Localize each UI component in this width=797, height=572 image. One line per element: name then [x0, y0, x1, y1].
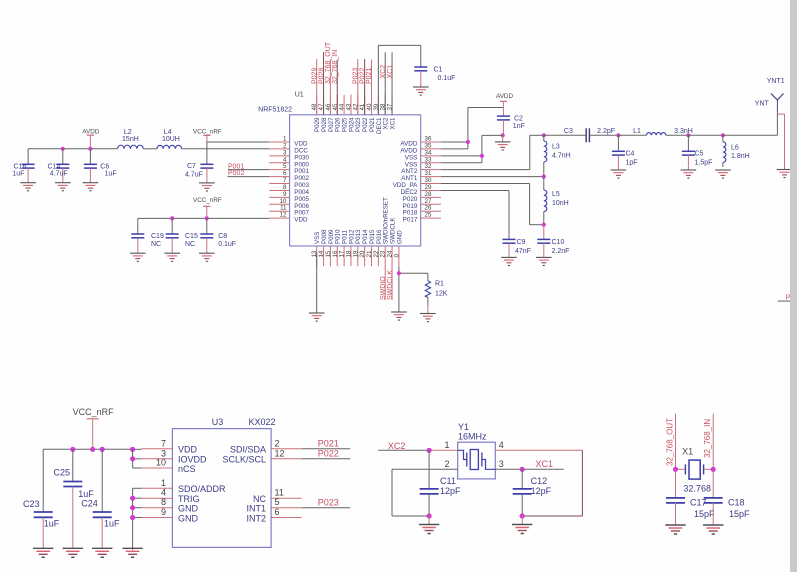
svg-text:P022: P022 — [318, 449, 339, 459]
wire net P021 (U3 pin2) — [302, 439, 351, 449]
node rail-C24 — [100, 447, 105, 452]
wire net P021 (U1 top pin 40) — [366, 60, 373, 115]
svg-text:Y1: Y1 — [458, 422, 469, 432]
ground for C9 — [501, 256, 517, 258]
U1 pin 26 P018 (right) — [403, 205, 441, 217]
U1 pin 10 P006 (left) — [269, 198, 309, 210]
U1 pin 20 P014 (bottom) — [359, 229, 369, 266]
window edge shading right — [790, 0, 797, 572]
wire net XC2 (U1 pin 38) — [380, 52, 387, 115]
node AVDD pins junction — [466, 140, 470, 144]
U1 pin 39 DEC1 (top) — [373, 95, 383, 134]
ground for C2 — [495, 135, 511, 150]
U1 pin 9 P005 (left) — [269, 191, 309, 203]
node GND9 tie — [130, 515, 135, 520]
svg-text:XC1: XC1 — [387, 65, 394, 79]
svg-text:5: 5 — [275, 497, 280, 507]
svg-text:L4: L4 — [164, 129, 172, 136]
wire net SWDCLK (pin 24) — [387, 266, 394, 300]
svg-text:C3: C3 — [564, 128, 573, 135]
ground for C19 — [130, 252, 146, 254]
svg-text:R1: R1 — [435, 281, 444, 288]
ground for C8 — [199, 252, 215, 254]
svg-text:C9: C9 — [517, 239, 526, 246]
wire U3 VDD rail — [43, 448, 141, 450]
U1 pin 5 P001 (left) — [269, 163, 309, 175]
wire SDO/TRIG/GND tie to ground — [133, 488, 142, 550]
U1 pin 8 P004 (left) — [269, 184, 309, 196]
svg-text:VCC_nRF: VCC_nRF — [193, 197, 222, 204]
svg-text:C18: C18 — [728, 498, 745, 508]
node C11-ground junction — [427, 513, 432, 518]
antenna YNT1 — [755, 78, 785, 111]
svg-text:AVDD: AVDD — [496, 93, 513, 100]
power AVDD (top) — [496, 93, 513, 116]
node pin0-R1 junction — [397, 271, 401, 275]
svg-text:P002: P002 — [228, 170, 244, 177]
svg-text:U1: U1 — [295, 92, 304, 99]
U3 pin 5 INT1 (right) — [246, 497, 301, 513]
node C12-ground junction — [520, 513, 525, 518]
ground for C14 — [55, 182, 71, 184]
node DCC-rail junction C14 — [61, 147, 65, 151]
U3 pin 3 IOVDD (left) — [142, 448, 208, 464]
U1 pin 31 ANT1 (right) — [401, 170, 441, 182]
U1 pin 3 P030 (left) — [269, 149, 309, 161]
svg-text:12: 12 — [280, 212, 287, 219]
svg-text:32_768_IN: 32_768_IN — [703, 419, 712, 458]
capacitor C12 — [513, 469, 552, 516]
svg-text:2: 2 — [275, 438, 280, 448]
svg-text:4.7uF: 4.7uF — [185, 171, 203, 178]
ground for L6 — [715, 169, 731, 171]
svg-text:L1: L1 — [633, 128, 641, 135]
wire VSS pin13 to ground — [316, 252, 318, 313]
U1 pin 48 P029 (top) — [311, 95, 321, 132]
svg-text:C23: C23 — [23, 499, 40, 509]
U1 pin 40 P021 (top) — [366, 95, 376, 132]
U1 pin 2 DCC (left) — [269, 142, 308, 154]
capacitor C19 — [131, 218, 164, 253]
U3 pin 8 GND (left) — [142, 497, 199, 513]
node VSS pins junction — [480, 154, 484, 158]
capacitor C15 — [166, 218, 198, 253]
U1 pin 0 GND (bottom) — [393, 230, 403, 266]
capacitor C1 — [414, 66, 455, 87]
wire net XC2 (to Y1 pin1) — [378, 441, 458, 451]
U1 pin 44 P025 (top) — [339, 95, 349, 132]
inductor L1 — [618, 128, 692, 135]
inductor L4 — [157, 129, 182, 149]
ground for C7 — [199, 182, 215, 184]
U1 pin 43 P024 (top) — [345, 95, 355, 132]
node rail-C15 — [170, 216, 174, 220]
svg-text:8: 8 — [161, 497, 166, 507]
svg-text:32_768_IN: 32_768_IN — [332, 50, 339, 84]
wire rail to antenna — [723, 134, 778, 136]
svg-text:3.3nH: 3.3nH — [674, 128, 693, 135]
U3 pin 11 NC (right) — [253, 488, 302, 504]
svg-text:2: 2 — [444, 459, 449, 469]
U3 pin 7 VDD (left) — [142, 438, 198, 454]
svg-text:2.2pF: 2.2pF — [597, 128, 615, 135]
wire net 32_768_OUT — [666, 414, 676, 498]
U3 pin 9 GND (left) — [142, 507, 199, 523]
svg-text:47nF: 47nF — [515, 248, 531, 255]
svg-text:GND: GND — [396, 230, 403, 244]
svg-text:C2: C2 — [514, 116, 523, 123]
U1 pin 15 P009 (bottom) — [325, 229, 335, 266]
svg-text:11: 11 — [275, 488, 284, 498]
U1 pin 46 P027 (top) — [325, 95, 335, 132]
U3 pin 2 SDI/SDA (right) — [230, 438, 302, 454]
capacitor C7 — [185, 142, 213, 183]
node L5-C10 junction — [542, 223, 546, 227]
U1 pin 7 P003 (left) — [269, 177, 309, 189]
svg-text:nCS: nCS — [178, 464, 196, 474]
ground for C23 — [33, 547, 53, 549]
capacitor C16 — [12, 149, 34, 183]
svg-text:0.1uF: 0.1uF — [438, 75, 456, 82]
svg-text:C5: C5 — [695, 151, 704, 158]
wire ANT1 pin31 — [441, 176, 544, 178]
U1 pin 6 P002 (left) — [269, 170, 309, 182]
inductor L3 — [544, 135, 571, 176]
U1 pin 42 P023 (top) — [352, 95, 362, 132]
U1 pin 37 XC1 (top) — [387, 95, 397, 130]
wire net P029 (U1 top pin 48) — [311, 59, 318, 115]
svg-text:12pF: 12pF — [440, 486, 461, 496]
svg-text:X1: X1 — [682, 446, 693, 456]
node L3-L5 junction — [542, 175, 546, 179]
U1 pin 33 VSS (right) — [405, 156, 441, 168]
U1 pin 30 VDD_PA (right) — [393, 177, 441, 189]
svg-text:KX022: KX022 — [248, 417, 275, 427]
ground for C11 — [419, 516, 439, 534]
svg-text:P017: P017 — [403, 217, 418, 224]
wire net 32_768_IN — [703, 414, 713, 498]
U1 pin 32 ANT2 (right) — [401, 163, 441, 175]
wire ANT2 to matching network — [441, 135, 544, 169]
ground for C24 — [92, 547, 112, 549]
svg-text:1.8nH: 1.8nH — [731, 153, 750, 160]
svg-text:1uF: 1uF — [78, 489, 94, 499]
svg-text:6: 6 — [275, 507, 280, 517]
wire net P023 (U3 pin5) — [302, 498, 351, 508]
svg-text:1pF: 1pF — [626, 160, 638, 167]
ground for C4 — [611, 169, 627, 171]
node XC1-C12 junction — [520, 467, 525, 472]
wire net P022 (U1 top pin 41) — [359, 59, 366, 115]
ground for R1 — [420, 313, 436, 315]
capacitor C3 (series) — [544, 128, 619, 142]
svg-text:INT1: INT1 — [246, 504, 266, 514]
svg-text:C11: C11 — [440, 476, 456, 486]
svg-text:NRF51822: NRF51822 — [258, 107, 292, 114]
resistor R1 — [425, 273, 447, 313]
wire net 32_768_IN (U1 top pin 45) — [332, 50, 339, 115]
svg-text:15nH: 15nH — [122, 136, 139, 143]
capacitor C4 — [612, 135, 638, 170]
svg-text:9: 9 — [161, 507, 166, 517]
wire DCC rail to L2/L4 — [28, 148, 269, 150]
svg-text:C8: C8 — [218, 233, 227, 240]
capacitor C10 — [537, 225, 569, 258]
wire VDD pin1 to VCC_nRF — [207, 141, 269, 143]
svg-text:12pF: 12pF — [531, 486, 552, 496]
capacitor C2 — [497, 116, 525, 136]
wire net XC1 (Y1 pin3) — [495, 459, 563, 469]
svg-text:XC2: XC2 — [388, 441, 406, 451]
U1 pin 4 P000 (left) — [269, 156, 309, 168]
wire net 32_768_OUT (U1 top pin 46) — [325, 41, 332, 115]
wire net P001 pin5 — [228, 163, 269, 170]
wire VCC_nRF rail to VDD pin12 — [138, 217, 269, 219]
wire IOVDD/nCS tie — [133, 449, 142, 468]
U1 pin 16 P010 (bottom) — [332, 229, 342, 266]
svg-text:C4: C4 — [626, 151, 635, 158]
node rail-IOVDD branch — [130, 447, 135, 452]
svg-text:1nF: 1nF — [513, 123, 525, 130]
node L6 tap — [721, 133, 725, 137]
svg-text:4: 4 — [499, 440, 504, 450]
U1 pin 41 P022 (top) — [359, 95, 369, 132]
wire VDD_PA pin30 to C10 — [441, 184, 544, 225]
svg-text:GND: GND — [178, 504, 199, 514]
svg-text:XC1: XC1 — [535, 459, 553, 469]
U1 pin 18 P012 (bottom) — [345, 229, 355, 266]
svg-text:U3: U3 — [212, 417, 224, 427]
power VCC_nRF (U3) — [73, 407, 115, 450]
svg-text:32_768_OUT: 32_768_OUT — [666, 418, 675, 466]
svg-text:XC1: XC1 — [389, 117, 396, 130]
wire net P022 (U3 pin12) — [302, 449, 351, 459]
svg-text:1uF: 1uF — [105, 170, 117, 177]
ground for C12 — [512, 516, 532, 534]
svg-text:1: 1 — [444, 440, 449, 450]
capacitor C17 — [666, 498, 715, 526]
U3 pin 1 SDO/ADDR (left) — [142, 478, 227, 494]
svg-text:C1: C1 — [434, 66, 443, 73]
ground for C6 — [83, 182, 99, 184]
svg-text:C6: C6 — [100, 163, 109, 170]
inductor L5 — [544, 177, 569, 225]
svg-text:0.1uF: 0.1uF — [218, 241, 236, 248]
ground for C15 — [164, 252, 180, 254]
svg-text:VCC_nRF: VCC_nRF — [73, 407, 115, 417]
svg-text:1uF: 1uF — [12, 170, 24, 177]
wire net P0 (right edge) — [778, 295, 795, 302]
capacitor C25 — [53, 449, 94, 548]
svg-text:GND: GND — [178, 513, 199, 523]
svg-text:C12: C12 — [531, 476, 548, 486]
svg-text:L3: L3 — [552, 144, 560, 151]
wire Y1 pin2 loop — [392, 469, 458, 516]
U1 pin 25 P017 (right) — [403, 212, 441, 224]
U1 pin 27 P019 (right) — [403, 198, 441, 210]
IC U3 KX022 body — [172, 429, 271, 548]
U1 pin 34 VSS (right) — [405, 149, 441, 161]
svg-text:VCC_nRF: VCC_nRF — [193, 128, 222, 135]
svg-text:C16: C16 — [14, 163, 27, 170]
svg-text:NC: NC — [253, 494, 266, 504]
svg-text:SWDCLK: SWDCLK — [387, 270, 394, 300]
svg-text:C25: C25 — [53, 468, 70, 478]
U1 pin 14 P008 (bottom) — [318, 229, 328, 266]
capacitor C18 — [704, 498, 750, 526]
svg-text:4.7uF: 4.7uF — [50, 170, 68, 177]
svg-text:SDO/ADDR: SDO/ADDR — [178, 484, 226, 494]
wire net XC1 (U1 pin 37) — [387, 52, 394, 115]
svg-text:0: 0 — [393, 254, 400, 258]
inductor L2 — [118, 129, 144, 149]
U1 pin 36 AVDD (right) — [400, 136, 441, 148]
svg-text:4: 4 — [161, 488, 166, 498]
svg-text:C15: C15 — [185, 233, 198, 240]
U1 pin 24 SWDCLK (bottom) — [387, 217, 397, 267]
crystal Y1 16MHz body — [444, 422, 503, 479]
IC U1 NRF51822 body — [290, 115, 421, 246]
ground for C17 — [665, 524, 685, 526]
svg-text:C14: C14 — [48, 163, 61, 170]
node rail-C25 — [70, 447, 75, 452]
svg-text:C24: C24 — [81, 499, 98, 509]
power VCC_nRF (mid) — [193, 197, 222, 218]
svg-text:P023: P023 — [318, 498, 339, 508]
capacitor C8 — [200, 218, 236, 253]
svg-text:4.7nH: 4.7nH — [552, 153, 571, 160]
svg-text:25: 25 — [425, 212, 432, 219]
power AVDD (left) — [82, 128, 99, 149]
svg-text:YNT1: YNT1 — [767, 78, 785, 85]
node C2-ground junction — [501, 133, 505, 137]
node XC2-C11 junction — [427, 448, 432, 453]
U3 pin 4 TRIG (left) — [142, 488, 200, 504]
U1 pin 23 SWDIO/nRESET (bottom) — [380, 197, 390, 266]
svg-text:L5: L5 — [552, 191, 560, 198]
svg-text:TRIG: TRIG — [178, 494, 200, 504]
svg-text:C10: C10 — [552, 239, 565, 246]
svg-text:YNT: YNT — [755, 101, 770, 108]
svg-text:16MHz: 16MHz — [458, 432, 487, 442]
U1 pin 29 DEC2 (right) — [401, 184, 441, 196]
svg-text:1uF: 1uF — [104, 519, 120, 529]
svg-text:C19: C19 — [151, 233, 164, 240]
U1 pin 47 P028 (top) — [318, 95, 328, 132]
wire VSS pins 33-34 to ground — [441, 135, 503, 162]
node DCC-rail junction AVDD — [88, 147, 92, 151]
node C5 tap — [686, 133, 690, 137]
ground for C5 — [681, 169, 697, 171]
capacitor C23 — [23, 449, 60, 548]
node TRIG tie — [130, 496, 135, 501]
svg-text:L2: L2 — [124, 129, 132, 136]
ground for C1 — [413, 86, 429, 88]
svg-text:P021: P021 — [366, 68, 373, 84]
svg-text:1.5pF: 1.5pF — [695, 160, 713, 167]
svg-text:L6: L6 — [731, 144, 739, 151]
capacitor C14 — [48, 149, 70, 183]
ground for U3 tie — [122, 547, 142, 549]
svg-text:15pF: 15pF — [729, 509, 750, 519]
U1 pin 13 VSS (bottom) — [311, 232, 321, 267]
svg-text:12K: 12K — [435, 291, 448, 298]
node rail-C8 — [205, 216, 209, 220]
wire Y1 pin4 loop — [495, 450, 582, 516]
capacitor C11 — [420, 450, 461, 516]
svg-text:1uF: 1uF — [44, 519, 60, 529]
U1 pin 12 VDD (left) — [269, 212, 308, 224]
wire AVDD pins 35-36 — [441, 108, 504, 149]
ground for C18 — [703, 524, 723, 526]
U1 pin 35 AVDD (right) — [400, 142, 441, 154]
U1 pin 28 P020 (right) — [403, 191, 441, 203]
node rail-VCC stem — [90, 447, 95, 452]
svg-text:NC: NC — [185, 241, 195, 248]
node GND8 tie — [130, 505, 135, 510]
svg-text:NC: NC — [151, 241, 161, 248]
node IOVDD tie — [130, 456, 135, 461]
U1 pin 1 VDD (left) — [269, 136, 308, 148]
ground for C25 — [63, 547, 83, 549]
wire antenna to rail — [777, 111, 784, 169]
ground for antenna — [777, 169, 793, 171]
U1 pin 17 P011 (bottom) — [339, 229, 349, 266]
node L3 top junction — [542, 133, 546, 137]
svg-text:10nH: 10nH — [552, 200, 569, 207]
ground for C10 — [536, 256, 552, 258]
U1 pin 11 P007 (left) — [269, 205, 309, 217]
wire net P002 pin6 — [228, 170, 270, 177]
wire antenna feed rail — [688, 134, 723, 136]
node X1 left junction — [673, 467, 678, 472]
capacitor C9 — [503, 239, 531, 257]
ground for C16 — [20, 182, 36, 184]
U1 pin 19 P013 (bottom) — [352, 229, 362, 266]
node X1 right junction — [711, 467, 716, 472]
node C4 tap — [616, 133, 620, 137]
svg-text:VDD: VDD — [294, 217, 308, 224]
svg-text:32.768: 32.768 — [683, 484, 711, 494]
U3 pin 10 nCS (left) — [142, 458, 196, 474]
U3 pin 6 INT2 (right) — [246, 507, 301, 523]
inductor L6 — [723, 135, 750, 167]
wire net P023 (U1 top pin 42) — [353, 59, 360, 115]
U1 pin 45 P026 (top) — [332, 95, 342, 132]
svg-text:VDD: VDD — [178, 445, 198, 455]
svg-text:12: 12 — [275, 448, 285, 458]
U1 pin 21 P015 (bottom) — [366, 229, 376, 266]
ground for pin0 — [391, 311, 407, 313]
wire DEC1 to C1 — [378, 45, 420, 114]
wire DEC2 pin29 to C9 — [441, 190, 509, 239]
svg-text:3: 3 — [499, 459, 504, 469]
U1 pin 22 P016 (bottom) — [373, 229, 383, 266]
svg-text:2.2nF: 2.2nF — [552, 248, 570, 255]
svg-text:INT2: INT2 — [246, 513, 266, 523]
U3 pin 12 SCLK/SCL (right) — [222, 448, 301, 464]
svg-text:1: 1 — [161, 478, 166, 488]
svg-text:10UH: 10UH — [162, 136, 180, 143]
svg-text:7: 7 — [161, 438, 166, 448]
wire net SWDIO (pin 23) — [380, 266, 387, 300]
svg-text:SDI/SDA: SDI/SDA — [230, 445, 266, 455]
svg-text:15pF: 15pF — [694, 509, 715, 519]
capacitor C24 — [81, 449, 120, 548]
svg-text:C7: C7 — [187, 163, 196, 170]
power VCC_nRF (top) — [193, 128, 222, 142]
svg-text:10: 10 — [156, 458, 166, 468]
